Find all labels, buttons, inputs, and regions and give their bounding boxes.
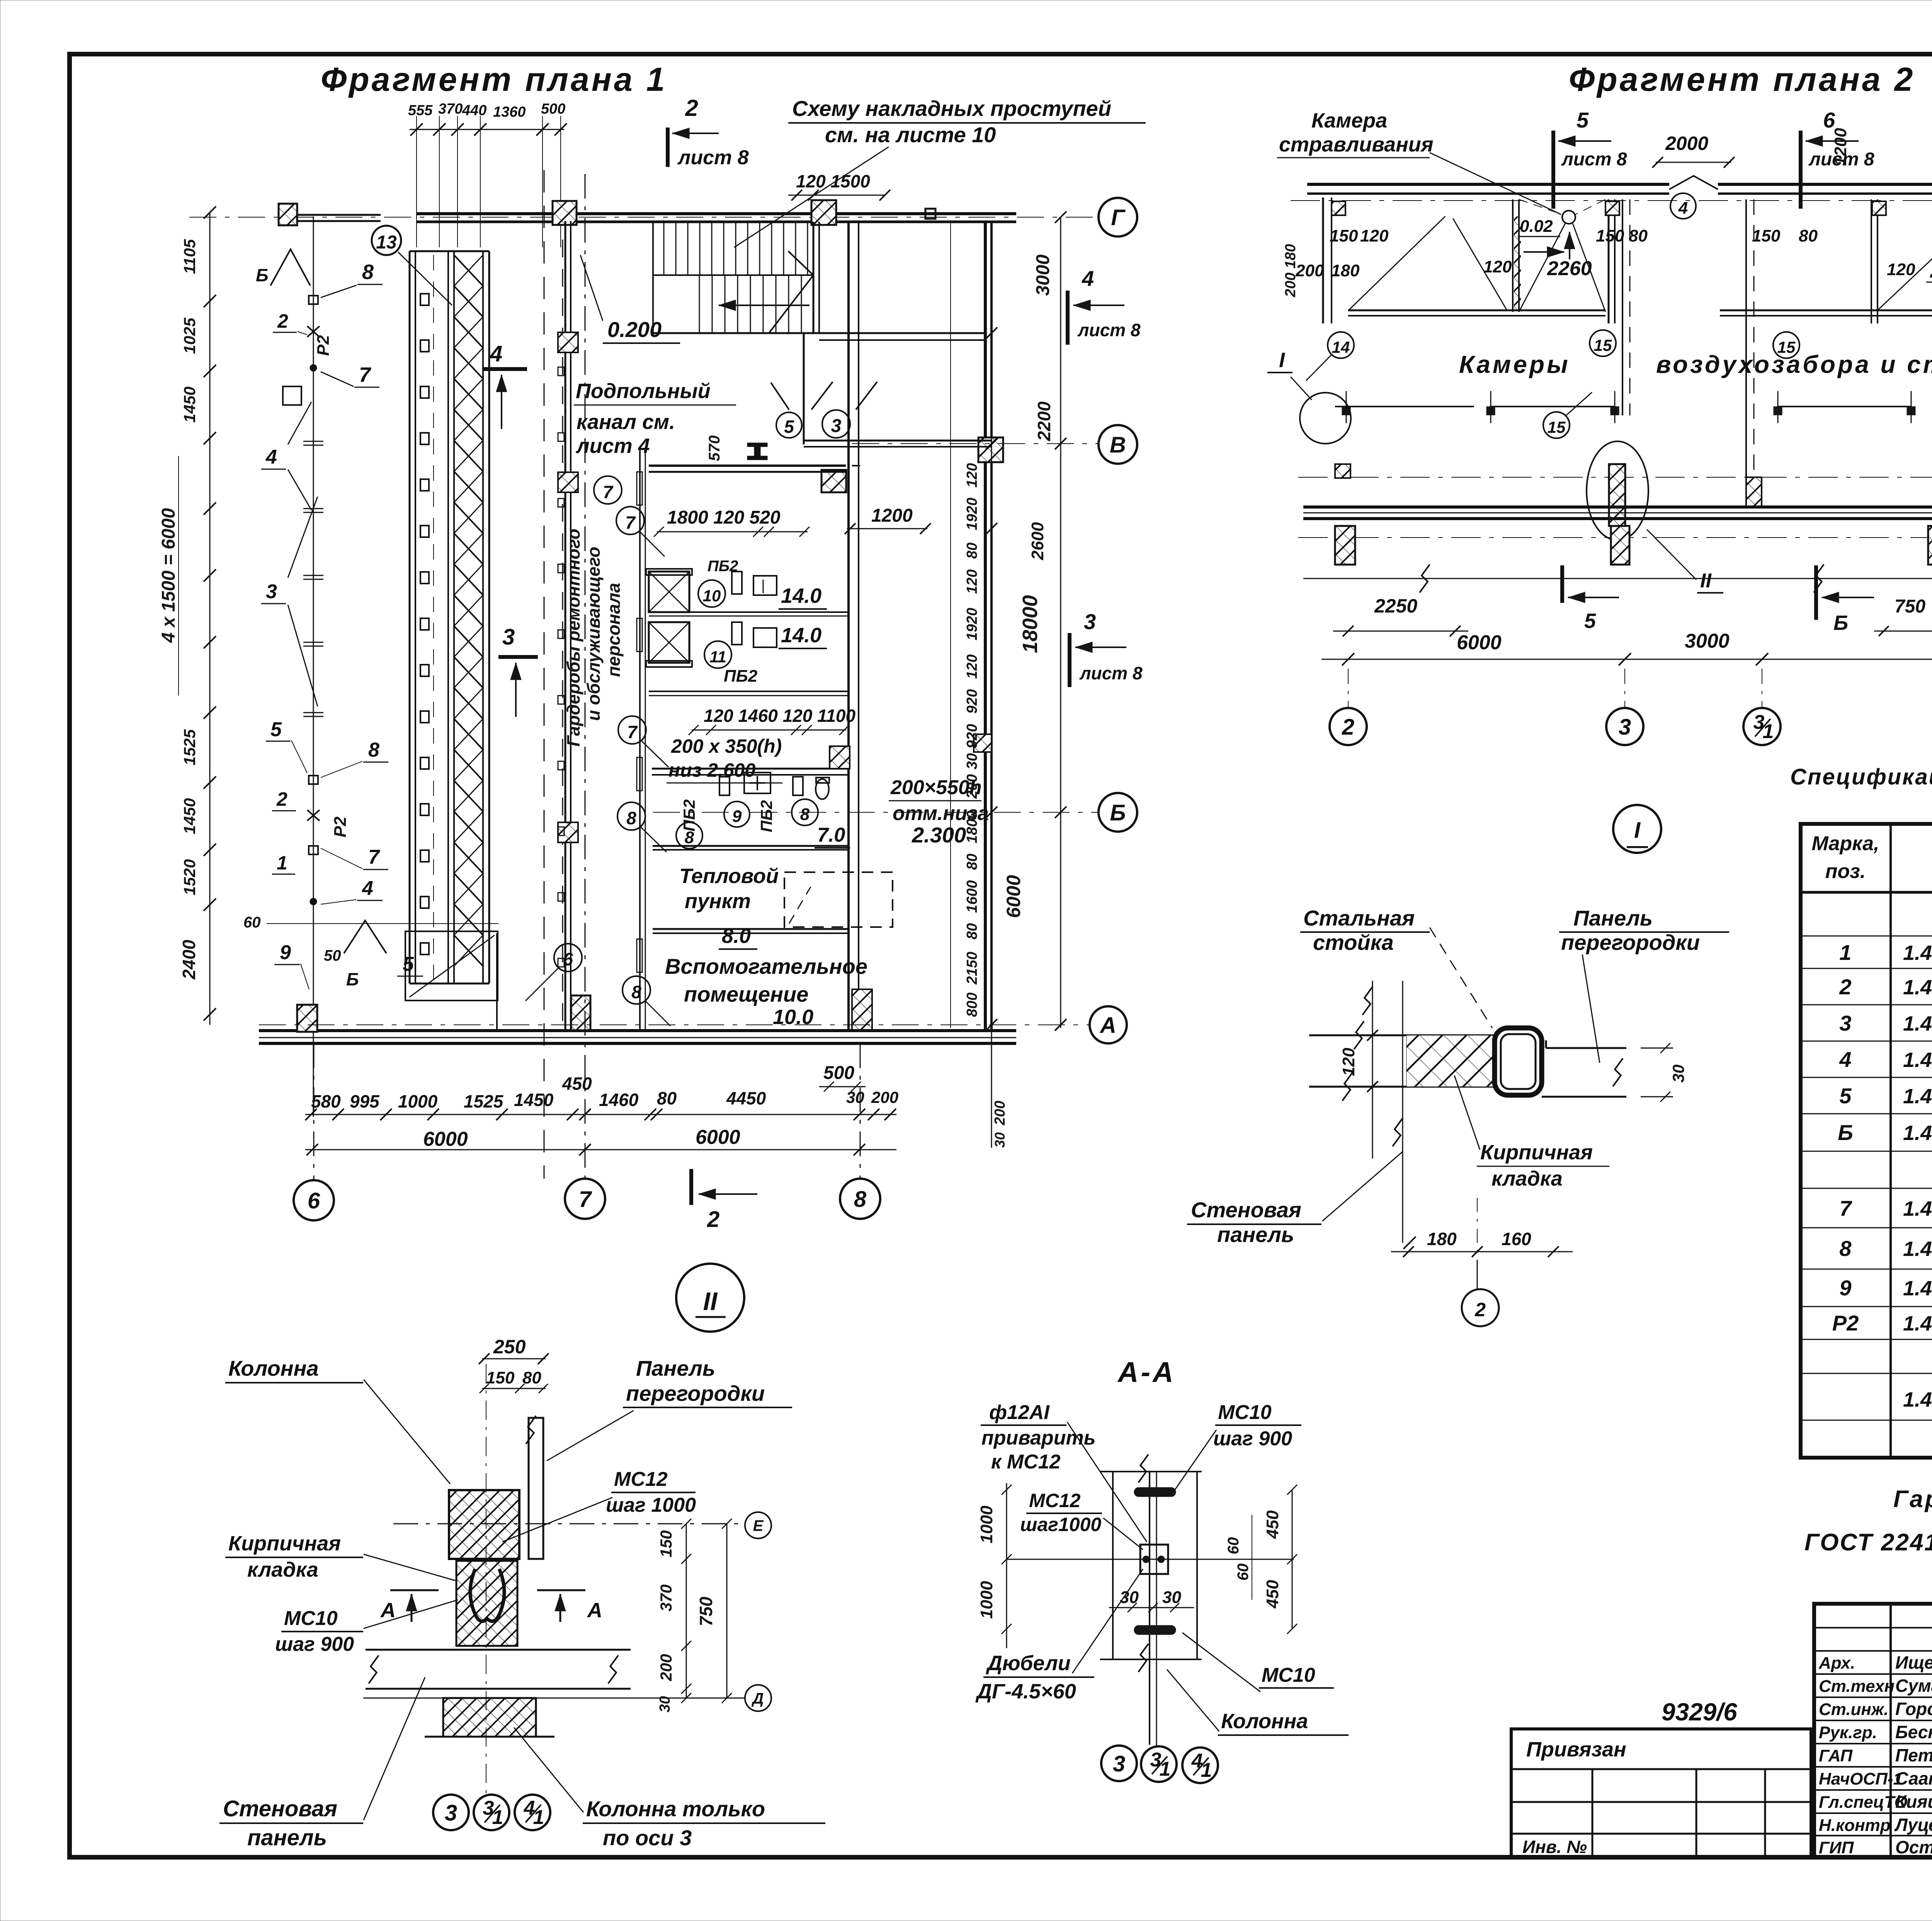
svg-text:8: 8 [1839, 1236, 1852, 1261]
detail I: break marks on band [1354, 1021, 1364, 1050]
svg-text:1.431-10В 3.02.00.01-01: 1.431-10В 3.02.00.01-01 [1903, 1277, 1932, 1300]
svg-text:555: 555 [408, 102, 433, 119]
plan2 section flag 5 bottom [1560, 565, 1564, 603]
pentagon door chamfers [771, 383, 789, 410]
svg-text:МС12: МС12 [614, 1468, 668, 1491]
svg-text:1450: 1450 [180, 386, 199, 422]
svg-text:1920: 1920 [964, 608, 980, 641]
svg-text:Камеры: Камеры [1459, 351, 1570, 378]
svg-text:лист 4: лист 4 [575, 434, 650, 458]
svg-text:Е: Е [753, 1517, 764, 1534]
truss small squares [420, 294, 429, 305]
svg-text:помещение: помещение [684, 982, 808, 1006]
circled 3 room [822, 410, 850, 438]
plan1 section flag 3 right [1068, 633, 1071, 687]
svg-text:МС10: МС10 [284, 1607, 338, 1630]
spec table outer border [1801, 824, 1932, 1458]
svg-text:ДГ-4.5×60: ДГ-4.5×60 [975, 1680, 1076, 1703]
plan2 circled 15 lower row [1543, 412, 1570, 438]
svg-text:1600: 1600 [964, 880, 980, 913]
plan1 rooms right wall x2196 [847, 222, 850, 1031]
detail II: section A-A marks [390, 1589, 439, 1591]
svg-text:Фрагмент плана 1: Фрагмент плана 1 [321, 61, 667, 98]
ventilation X-box 1 [649, 572, 689, 612]
svg-text:Кияшко: Кияшко [1895, 1792, 1932, 1812]
svg-text:Инв. №: Инв. № [1522, 1837, 1587, 1857]
detail II: wall panel band [366, 1649, 631, 1651]
svg-text:30: 30 [846, 1088, 864, 1106]
svg-text:120: 120 [964, 463, 980, 487]
svg-text:7: 7 [627, 722, 638, 742]
plan1 room wall below stairs [653, 332, 985, 334]
detail II: column hatched [449, 1490, 519, 1559]
svg-text:1: 1 [1160, 1758, 1171, 1780]
svg-text:4 х 1500 = 6000: 4 х 1500 = 6000 [158, 508, 179, 643]
svg-text:Схему накладных проступей: Схему накладных проступей [792, 96, 1111, 121]
svg-text:3: 3 [1619, 715, 1631, 740]
svg-text:120: 120 [964, 569, 980, 594]
svg-text:5: 5 [270, 718, 282, 741]
circled 8 labels row [617, 802, 645, 830]
plan1 stairs [652, 222, 654, 333]
plan2 partition post row [1335, 406, 1474, 407]
svg-text:120 1500: 120 1500 [796, 171, 870, 191]
ventilation X-box 2 [649, 622, 689, 663]
svg-text:30: 30 [964, 753, 980, 769]
svg-text:Б: Б [1110, 800, 1126, 825]
svg-text:60: 60 [1235, 1564, 1252, 1581]
detail II: lower line [363, 1698, 745, 1699]
svg-text:Стальная: Стальная [1303, 906, 1415, 930]
Привязан box inner grid [1511, 1768, 1811, 1770]
svg-text:80: 80 [1799, 226, 1818, 245]
panel marker X crosses [307, 326, 320, 337]
svg-text:1000: 1000 [398, 1091, 438, 1111]
wall door leaf marks [637, 472, 642, 505]
svg-text:200: 200 [657, 1654, 675, 1681]
plan2 grid circle 3/1 [1743, 708, 1781, 745]
svg-text:2: 2 [1839, 975, 1851, 999]
svg-text:4450: 4450 [726, 1088, 766, 1108]
detail A-A: top and bottom edges [1100, 1471, 1202, 1472]
svg-text:Гардеробы оборудованы шкафа: Гардеробы оборудованы шкафами МД-33.3 по [1893, 1486, 1932, 1513]
svg-text:150: 150 [1752, 226, 1781, 245]
svg-text:ПБ2: ПБ2 [757, 800, 776, 832]
svg-text:4: 4 [265, 446, 277, 468]
svg-text:2260: 2260 [1547, 257, 1592, 280]
svg-text:I: I [1279, 349, 1285, 372]
plan2 axis Е [1298, 477, 1932, 478]
svg-text:1: 1 [1201, 1759, 1212, 1781]
wardrobe top wall [649, 465, 846, 467]
svg-text:НачОСП-1: НачОСП-1 [1819, 1770, 1903, 1788]
svg-text:Привязан: Привязан [1526, 1738, 1626, 1761]
wall squares on axis7 wall [558, 472, 578, 492]
svg-text:Луценко: Луценко [1894, 1815, 1932, 1835]
plan2 main dim chain 6000 3000 6000 6000 [1321, 659, 1932, 660]
I-beam symbol top [747, 443, 767, 460]
svg-text:8: 8 [626, 808, 636, 828]
lintel rect ПБ2 1 [732, 572, 742, 594]
plan1 grid circle А and axis [259, 1024, 1090, 1025]
lintel rect ПБ2 2 [732, 622, 742, 645]
svg-text:15: 15 [1548, 418, 1566, 436]
svg-text:Арх.: Арх. [1818, 1654, 1855, 1673]
svg-text:1.431-10В 3.02.05.00-03: 1.431-10В 3.02.05.00-03 [1903, 1197, 1932, 1220]
svg-text:150: 150 [1330, 226, 1358, 245]
detail II: right vertical dims [686, 1524, 687, 1698]
svg-text:1200: 1200 [871, 505, 913, 526]
circled I big below spec title [1613, 805, 1661, 853]
svg-text:Колонна только: Колонна только [586, 1797, 765, 1821]
plan2 label II [1647, 529, 1696, 580]
svg-text:1.431-10В 3.02.05.00-01: 1.431-10В 3.02.05.00-01 [1903, 941, 1932, 965]
svg-text:ПБ2: ПБ2 [680, 799, 698, 831]
dashed equipment rect [784, 872, 893, 927]
detail A-A: center plate МС12 with dowels [1140, 1545, 1168, 1574]
svg-text:2200: 2200 [1034, 401, 1054, 441]
svg-text:Подпольный: Подпольный [576, 379, 711, 403]
svg-text:1.431-10В 3.02.01.00-02: 1.431-10В 3.02.01.00-02 [1903, 1012, 1932, 1035]
title block outer [1814, 1604, 1932, 1857]
svg-text:МС10: МС10 [1218, 1401, 1272, 1424]
svg-text:30: 30 [992, 1132, 1008, 1148]
detail I: steel tube [1495, 1028, 1542, 1095]
svg-text:3000: 3000 [1685, 630, 1730, 652]
svg-text:Стеновая: Стеновая [1191, 1198, 1301, 1222]
circled 8 bottom [622, 976, 650, 1004]
svg-text:3000: 3000 [1033, 254, 1053, 296]
svg-text:200: 200 [964, 774, 980, 799]
svg-text:6000: 6000 [1003, 875, 1024, 918]
plan1 truss column outline [409, 251, 411, 983]
plan1 column at x1457 [553, 201, 577, 225]
plan2 circled 15 top row [1590, 330, 1616, 356]
svg-text:пункт: пункт [685, 890, 751, 913]
circled 9 label [724, 801, 750, 827]
svg-text:Вспомогательное: Вспомогательное [665, 954, 867, 978]
svg-text:1.431-10В 3.02.05.00-01: 1.431-10В 3.02.05.00-01 [1903, 1237, 1932, 1261]
detail A-A: grid circles 3 3/1 4/1 [1101, 1746, 1137, 1781]
svg-text:Стеновая: Стеновая [223, 1796, 337, 1821]
toilet hatched column [830, 746, 850, 769]
svg-text:Кирпичная: Кирпичная [1480, 1141, 1593, 1164]
detail A-A: core verticals [1112, 1472, 1114, 1659]
svg-text:750: 750 [1895, 596, 1925, 617]
svg-text:перегородки: перегородки [626, 1381, 765, 1405]
svg-text:180: 180 [1427, 1229, 1457, 1249]
plan2 grid circle 3 [1606, 708, 1643, 745]
plan1 top-left column [279, 204, 297, 225]
svg-text:см. на листе 10: см. на листе 10 [825, 123, 996, 147]
hatched column bottom right x2205 [852, 989, 872, 1031]
detail I: panel hook [1546, 1047, 1626, 1049]
svg-text:450: 450 [1263, 1580, 1282, 1609]
svg-text:лист 8: лист 8 [677, 146, 749, 169]
svg-text:9329/6: 9329/6 [1662, 1698, 1737, 1726]
svg-text:570: 570 [706, 436, 723, 461]
svg-text:3: 3 [1113, 1751, 1125, 1776]
svg-text:2600: 2600 [1028, 522, 1047, 560]
plan1 grid circle Г [1099, 198, 1137, 237]
plan1 grid circle 13 with leader [372, 226, 401, 255]
svg-text:120: 120 [1360, 226, 1389, 245]
svg-text:15: 15 [1777, 338, 1796, 356]
svg-text:кладка: кладка [247, 1558, 318, 1581]
Привязан box [1511, 1729, 1811, 1857]
svg-text:150: 150 [486, 1368, 515, 1387]
plan1 wall on axis 7 [565, 221, 566, 1031]
svg-text:1.431-10В 3.02.18.00: 1.431-10В 3.02.18.00 [1903, 1388, 1932, 1411]
svg-text:120: 120 [964, 654, 980, 679]
svg-text:1450: 1450 [514, 1090, 554, 1110]
svg-text:персонала: персонала [604, 583, 624, 677]
toilet top wall [652, 768, 849, 770]
svg-text:7: 7 [625, 512, 636, 533]
plan1 section flag 4 right [1066, 291, 1070, 345]
svg-text:6000: 6000 [1457, 631, 1502, 654]
wardrobe room divider walls [649, 611, 849, 613]
svg-text:3: 3 [1839, 1011, 1851, 1035]
svg-text:шаг 900: шаг 900 [1213, 1428, 1292, 1450]
svg-text:3: 3 [445, 1800, 457, 1826]
svg-text:440: 440 [462, 102, 486, 119]
svg-text:Д: Д [752, 1690, 764, 1707]
svg-text:шаг 900: шаг 900 [275, 1633, 354, 1656]
plan2 circled 4 [1670, 193, 1696, 219]
svg-text:11: 11 [709, 648, 726, 666]
panel box with diagonal [405, 931, 498, 1000]
hatched lintel at (2126,1216) [821, 470, 846, 492]
plan2 circled 14 left [1328, 332, 1354, 358]
plan2 grid circle 2 [1330, 708, 1367, 745]
svg-text:поз.: поз. [1825, 860, 1866, 883]
svg-text:8: 8 [854, 1187, 867, 1212]
svg-text:14.0: 14.0 [781, 624, 821, 647]
svg-text:Бескоровайный: Бескоровайный [1895, 1722, 1932, 1742]
svg-text:0.200: 0.200 [607, 317, 662, 342]
svg-text:1: 1 [277, 852, 287, 874]
svg-text:920: 920 [964, 724, 980, 748]
svg-text:1: 1 [492, 1806, 503, 1829]
svg-text:6000: 6000 [423, 1128, 468, 1150]
svg-text:1025: 1025 [180, 318, 199, 354]
svg-text:I: I [1634, 818, 1641, 843]
svg-text:Рук.гр.: Рук.гр. [1819, 1723, 1877, 1742]
circled 7 labels [594, 476, 622, 504]
wall nubs on axis7 wall [558, 367, 564, 376]
svg-text:4: 4 [362, 877, 373, 900]
svg-text:5: 5 [1577, 108, 1589, 132]
toilet fixtures [719, 777, 730, 795]
svg-text:160: 160 [1502, 1229, 1531, 1249]
svg-text:Ст.инж.: Ст.инж. [1819, 1700, 1889, 1719]
small square symbol [283, 386, 301, 405]
svg-text:450: 450 [1263, 1510, 1282, 1539]
svg-text:1920: 1920 [964, 498, 980, 531]
svg-text:1800 120 520: 1800 120 520 [667, 507, 781, 528]
svg-text:80: 80 [1629, 226, 1648, 245]
plan1 grid-6 line with panel markers x811 [313, 216, 314, 1117]
plan2 section flag 6 top [1799, 131, 1803, 209]
svg-text:МС10: МС10 [1262, 1664, 1315, 1686]
plan1 right wall [984, 222, 987, 1031]
svg-text:Петровский: Петровский [1895, 1745, 1932, 1765]
svg-text:1: 1 [1763, 720, 1774, 743]
circled 11 [704, 641, 731, 668]
svg-text:ПБ2: ПБ2 [724, 667, 758, 686]
svg-text:II: II [703, 1287, 718, 1315]
svg-text:7: 7 [603, 482, 614, 502]
svg-text:2: 2 [1342, 715, 1354, 740]
svg-text:370: 370 [657, 1584, 675, 1611]
svg-text:8.0: 8.0 [722, 924, 751, 948]
plan1 grid circle 6 [294, 1180, 334, 1220]
svg-text:4: 4 [1678, 199, 1688, 218]
svg-text:2: 2 [685, 95, 698, 121]
svg-text:30: 30 [657, 1696, 673, 1712]
svg-text:4: 4 [1082, 266, 1094, 291]
svg-text:580: 580 [311, 1091, 341, 1111]
svg-text:60: 60 [1225, 1537, 1242, 1555]
svg-text:6: 6 [1823, 108, 1835, 132]
svg-text:1525: 1525 [180, 729, 199, 766]
svg-text:14.0: 14.0 [781, 584, 821, 607]
svg-text:1.431-10В 3.02.17.00: 1.431-10В 3.02.17.00 [1903, 976, 1932, 999]
svg-text:80: 80 [522, 1368, 541, 1387]
svg-text:Б: Б [256, 265, 269, 285]
svg-text:2150: 2150 [964, 952, 980, 985]
stairs cut diagonal [769, 251, 813, 333]
detail A-A: bolts МС10 [1134, 1487, 1176, 1497]
svg-text:приварить: приварить [981, 1427, 1096, 1449]
stairs arrow [719, 305, 810, 306]
svg-text:1360: 1360 [493, 104, 526, 120]
svg-text:500: 500 [823, 1063, 854, 1083]
теплопункт bottom wall [653, 928, 849, 930]
svg-text:Дюбели: Дюбели [986, 1652, 1071, 1675]
svg-text:Панель: Панель [636, 1356, 715, 1380]
svg-text:1520: 1520 [180, 859, 199, 895]
plan2 bottom wall [1303, 505, 1932, 509]
wall y1145 and room of Подпольный канал [803, 333, 805, 444]
svg-text:МС12: МС12 [1029, 1490, 1081, 1511]
svg-text:Тепловой: Тепловой [679, 864, 779, 888]
svg-text:2: 2 [1475, 1299, 1486, 1320]
svg-text:Саакьянц: Саакьянц [1895, 1768, 1932, 1788]
svg-text:лист 8: лист 8 [1808, 149, 1874, 170]
svg-text:кладка: кладка [1492, 1167, 1563, 1190]
detail II: center axis dash [486, 1364, 486, 1793]
svg-text:ГАП: ГАП [1819, 1746, 1853, 1765]
bottom wall hatched columns [297, 1005, 317, 1032]
plan2 top wall [1307, 183, 1669, 186]
svg-text:15: 15 [1594, 336, 1612, 354]
svg-text:2: 2 [276, 788, 287, 810]
svg-text:3: 3 [831, 416, 842, 436]
plan2 bottom hatched columns [1335, 526, 1355, 565]
svg-text:Н.контр: Н.контр [1819, 1816, 1891, 1835]
plan2 section flag Б bottom [1814, 565, 1818, 620]
grid axes dash-dot verticals bottom [313, 1043, 315, 1179]
plan1 grid circle Б and axis [653, 812, 1099, 813]
svg-text:2300: 2300 [1930, 260, 1932, 282]
svg-text:9: 9 [732, 807, 742, 826]
detail II: panel vertical [529, 1418, 543, 1559]
svg-text:1.431-10В 3.02.01.00-03: 1.431-10В 3.02.01.00-03 [1903, 1121, 1932, 1145]
title block signature columns [1889, 1604, 1892, 1857]
svg-text:8: 8 [631, 982, 641, 1002]
svg-text:1450: 1450 [180, 798, 199, 834]
marker flag Б lower [344, 921, 386, 953]
plan2 partitions top band [1332, 201, 1345, 215]
svg-text:1460: 1460 [599, 1090, 639, 1110]
svg-text:995: 995 [350, 1091, 380, 1111]
svg-text:1105: 1105 [180, 239, 199, 274]
svg-text:1000: 1000 [977, 1581, 996, 1619]
svg-text:А: А [380, 1599, 396, 1622]
plan2 corridor walls [1622, 199, 1623, 415]
svg-text:9: 9 [1839, 1276, 1851, 1300]
spec table column lines [1889, 824, 1892, 1458]
plan1 grid circle 7 [565, 1179, 605, 1219]
plan1 column at x2120 [811, 200, 836, 225]
svg-text:0.02: 0.02 [1520, 217, 1553, 236]
svg-text:50: 50 [324, 947, 341, 964]
svg-text:7: 7 [359, 363, 372, 386]
detail A-A: mid horizontal line [1007, 1559, 1294, 1560]
svg-text:7: 7 [1839, 1196, 1852, 1220]
svg-text:7: 7 [368, 846, 380, 868]
circled 10 [698, 580, 725, 607]
plan1 bottom wall [259, 1029, 1016, 1032]
svg-text:Р2: Р2 [1832, 1311, 1859, 1335]
svg-text:60: 60 [243, 914, 261, 931]
title block signature row lines [1814, 1627, 1932, 1628]
svg-text:Р2: Р2 [331, 817, 350, 837]
svg-text:120: 120 [1339, 1048, 1358, 1076]
svg-text:200: 200 [992, 1101, 1008, 1125]
circled 6 lower [554, 944, 582, 972]
svg-text:панель: панель [1217, 1222, 1294, 1247]
plan1 top wall [298, 214, 381, 216]
svg-text:370: 370 [438, 101, 463, 117]
svg-text:лист 8: лист 8 [1077, 320, 1141, 340]
plan1 right vertical dim chains [950, 220, 951, 1028]
plan1 grid axis Г horizontal [189, 217, 1099, 218]
plan2 fan cell 1 [1562, 211, 1575, 224]
svg-text:80: 80 [964, 854, 980, 870]
svg-text:1.431-10В 3.02.02.00-01: 1.431-10В 3.02.02.00-01 [1903, 1048, 1932, 1072]
svg-text:Ст.техн: Ст.техн [1819, 1677, 1895, 1696]
plan2 axis Ж [1291, 200, 1932, 201]
svg-text:200 180: 200 180 [1282, 244, 1299, 297]
plan2 axis Д [1298, 537, 1932, 538]
detail I: circled 2 [1462, 1289, 1499, 1326]
svg-text:Г: Г [1111, 205, 1126, 230]
plan1 left dim chain line [209, 213, 211, 1025]
plan2 top wall gap chevron [1669, 176, 1718, 189]
svg-text:6: 6 [308, 1188, 320, 1213]
svg-text:Б: Б [346, 969, 359, 989]
svg-text:Б: Б [1833, 611, 1848, 635]
svg-text:Кирпичная: Кирпичная [228, 1532, 341, 1555]
svg-text:Камера: Камера [1311, 109, 1387, 132]
svg-text:18000: 18000 [1019, 595, 1042, 653]
svg-text:14: 14 [1332, 338, 1350, 356]
svg-text:Спецификация к схеме расположе: Спецификация к схеме расположения сетчат… [1790, 764, 1932, 789]
plan2 pier II tall [1609, 464, 1625, 526]
